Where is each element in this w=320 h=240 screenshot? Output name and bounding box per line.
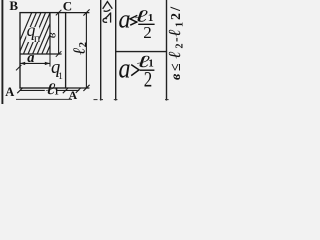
- svg-text:в: в: [44, 32, 59, 38]
- svg-text:B: B: [9, 0, 18, 13]
- svg-text:A: A: [69, 88, 78, 102]
- svg-text:-: -: [169, 37, 184, 42]
- svg-text:2: 2: [169, 13, 184, 20]
- rotated column text lambda>=: [103, 2, 113, 23]
- svg-text:1: 1: [54, 87, 59, 97]
- tick at l2 bottom: [83, 85, 89, 91]
- paper background: [0, 0, 186, 104]
- svg-text:1: 1: [58, 72, 63, 82]
- svg-text:a: a: [27, 50, 34, 66]
- svg-text:ℓ: ℓ: [165, 51, 184, 58]
- svg-text:2: 2: [78, 42, 89, 47]
- svg-text:a: a: [119, 52, 131, 84]
- svg-text:/: /: [168, 6, 184, 12]
- svg-text:C: C: [63, 0, 72, 13]
- hatched load area: [13, 11, 64, 56]
- arrow tick l1 right end: [76, 88, 81, 93]
- dimension line a: [20, 62, 50, 64]
- label l2 (rotated): [70, 42, 89, 55]
- arrowhead a right: [45, 62, 50, 65]
- svg-text:ℓ: ℓ: [165, 29, 184, 36]
- svg-text:ℓ: ℓ: [70, 47, 89, 54]
- bottom edge extension to l2 dimension: [66, 87, 90, 89]
- tick at l2 top: [83, 9, 89, 15]
- tick at b bottom: [56, 51, 62, 57]
- dimension line l1 segment left: [20, 89, 45, 91]
- svg-text:A: A: [5, 85, 14, 99]
- slab outline rectangle: [20, 13, 66, 88]
- label q_p pad: [26, 27, 39, 42]
- hatch right edge: [49, 13, 51, 54]
- tick at b top: [56, 10, 62, 16]
- rotated column text b <= l2 - l1/2: [165, 6, 186, 80]
- dimension line l1 segment right: [57, 89, 79, 91]
- arrowhead a left: [20, 62, 25, 65]
- dimension line l2 (vertical): [85, 13, 87, 88]
- small slash below left corner: [16, 65, 21, 70]
- formula cell bottom: a > l1/2: [119, 52, 155, 92]
- table vertical line v2: [115, 0, 117, 101]
- top edge extension to l2 dimension: [66, 12, 90, 14]
- tick l1 at rect right edge: [63, 88, 69, 94]
- hatch bottom edge: [20, 53, 62, 55]
- svg-text:1: 1: [175, 22, 186, 27]
- dimension line b (vertical): [58, 13, 60, 54]
- table border thick left: [1, 0, 3, 104]
- svg-text:≤: ≤: [169, 63, 184, 71]
- table bottom broken border: [16, 98, 169, 100]
- extension line for a at x=50: [49, 54, 51, 67]
- svg-text:2: 2: [144, 67, 153, 92]
- formula cell top: a <= l1/2: [119, 4, 155, 42]
- svg-text:п: п: [34, 31, 41, 45]
- table row divider: [116, 51, 167, 53]
- table vertical line v1: [100, 0, 102, 101]
- svg-text:2: 2: [143, 23, 152, 42]
- table vertical line v3: [166, 0, 168, 101]
- tick l1 left: [17, 88, 23, 94]
- svg-text:2: 2: [175, 44, 186, 49]
- svg-text:в: в: [169, 73, 184, 80]
